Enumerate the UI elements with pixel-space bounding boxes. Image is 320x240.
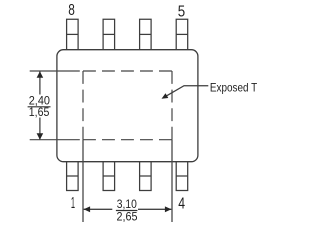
package body U1: [57, 50, 198, 162]
dimension line horizontal (3,10/2,65), right segment: [138, 208, 171, 210]
pin 7: [103, 19, 115, 49]
pin 5: [176, 19, 188, 49]
fraction bar (bottom dimension): [116, 210, 137, 212]
pin 8 number label: [68, 2, 75, 19]
dimension text 2,40: [29, 93, 50, 107]
svg-text:Exposed T: Exposed T: [210, 80, 258, 94]
leader arrowhead: [162, 93, 169, 99]
pin 1 number label: [71, 195, 75, 212]
pin 8: [67, 19, 79, 49]
pin 4: [176, 162, 188, 191]
leader line to exposed pad: [167, 86, 209, 96]
pin 5 number label: [178, 3, 185, 20]
dimension text 2,65: [117, 209, 138, 223]
arrowhead left (bottom dimension): [84, 206, 91, 212]
exposed pad dashed outline: bottom edge: [83, 139, 172, 141]
label: Exposed Thermal pad (clipped at image edge): [210, 80, 258, 94]
dimension line vertical (2,40/1,65), lower segment: [39, 118, 41, 140]
pin 6: [140, 19, 152, 49]
exposed pad dashed outline: left edge: [82, 71, 84, 140]
exposed pad dashed outline: top edge: [83, 70, 172, 72]
extension line: pad bottom (left dimension): [30, 139, 80, 141]
svg-text:1: 1: [71, 195, 75, 212]
pin 1: [67, 162, 79, 191]
extension line: pad top (left dimension): [30, 70, 80, 72]
dimension text 1,65: [29, 105, 50, 119]
pin 4 number label: [178, 196, 185, 213]
dimension line horizontal (3,10/2,65), left segment: [84, 208, 113, 210]
pin 3: [140, 162, 152, 191]
svg-text:4: 4: [178, 196, 185, 213]
extension line: pad right (bottom dimension): [171, 140, 173, 222]
svg-text:5: 5: [178, 3, 185, 20]
pin 2: [103, 162, 115, 191]
svg-text:8: 8: [68, 2, 75, 19]
dimension text 3,10: [117, 197, 137, 211]
arrowhead up (left dimension): [37, 71, 44, 77]
arrowhead right (bottom dimension): [165, 206, 172, 212]
arrowhead down (left dimension): [37, 133, 44, 139]
fraction bar (left dimension): [28, 106, 51, 108]
svg-text:2,65: 2,65: [117, 209, 138, 223]
extension line: pad left (bottom dimension): [82, 140, 84, 222]
svg-text:1,65: 1,65: [29, 105, 50, 119]
dimension line vertical (2,40/1,65), upper segment: [39, 71, 41, 94]
exposed pad dashed outline: right edge: [171, 71, 173, 140]
